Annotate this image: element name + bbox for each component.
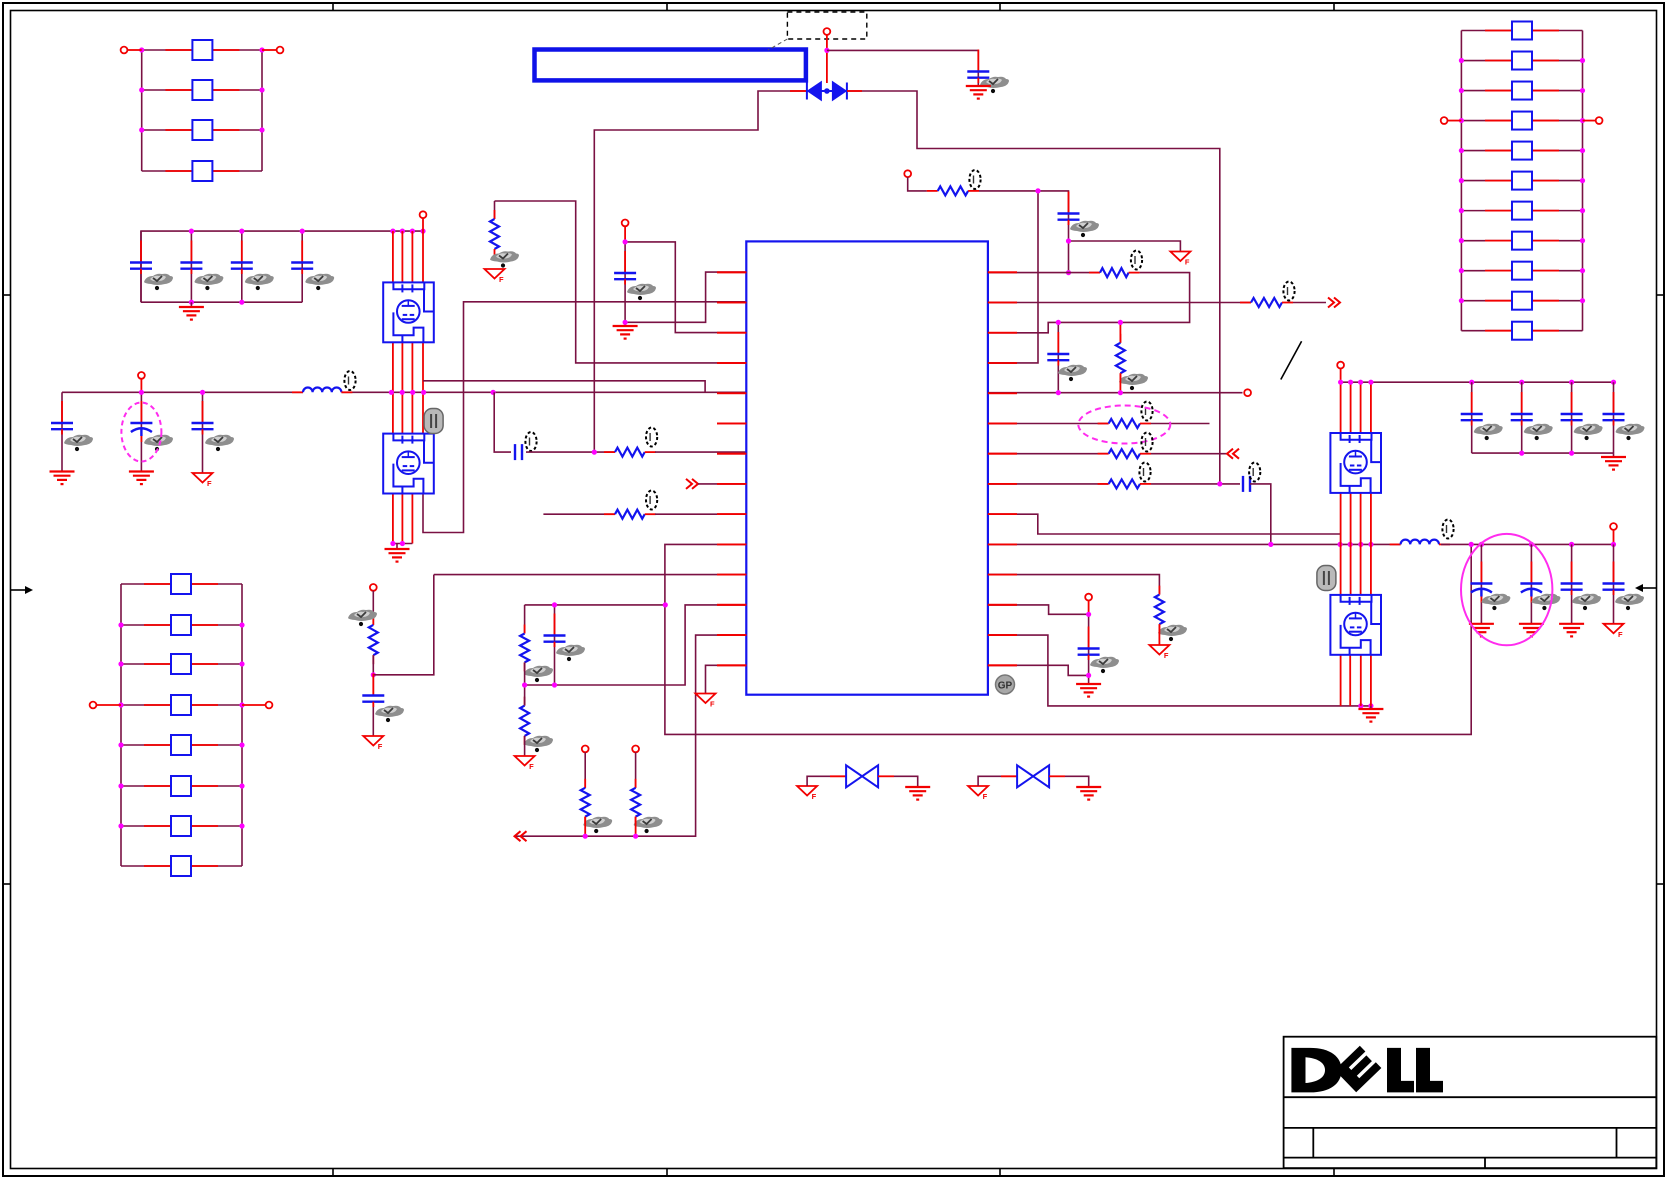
wire RN2 row 3 — [121, 663, 242, 665]
wire cap bank2 bottom rail — [1472, 452, 1614, 454]
ground under C53 — [1559, 624, 1584, 637]
ground cap bank2 — [1601, 457, 1626, 470]
ground under C33 — [1076, 684, 1101, 697]
series capacitor C26 — [515, 444, 522, 460]
off-page arrow into pin 483 — [686, 479, 698, 489]
value icon C27 — [375, 706, 404, 722]
terminal above R24 — [370, 584, 377, 591]
wire terminal VIN stub — [422, 218, 424, 231]
wire pin665R run — [988, 665, 1089, 675]
resistor bank RN3 left rail — [1460, 31, 1462, 331]
chassis ground right of C30 — [1170, 252, 1190, 267]
wire bowtie 1 left — [807, 776, 830, 786]
capacitor C25 — [614, 251, 636, 285]
svg-text:GP: GP — [998, 681, 1013, 692]
capacitor C31 — [1047, 332, 1069, 366]
wire bundle 412.4 mid — [411, 342, 413, 433]
wire row483 mid — [1151, 483, 1240, 485]
resistor R47 — [144, 816, 218, 836]
junction dot row483 — [1217, 481, 1222, 486]
wire bowtie 1 right — [894, 776, 918, 787]
IC U1 right pin stub overlay — [988, 272, 1017, 665]
value label R36 — [1139, 463, 1150, 482]
terminal row392 — [1244, 389, 1251, 396]
terminal above right bundle — [1337, 362, 1344, 369]
chassis ground bowtie 2 left — [968, 786, 988, 801]
value label R33 — [1283, 282, 1294, 301]
resistor R48 — [144, 856, 218, 876]
junction dots R30 net — [1035, 188, 1071, 275]
capacitor C27 — [362, 674, 384, 708]
wire RN3 row 11 — [1461, 330, 1582, 332]
value icon C41 — [1474, 424, 1503, 440]
wire bundle 423 mid — [422, 342, 424, 433]
wire cap C22 branch — [140, 392, 142, 471]
wire RN3 row 7 — [1461, 210, 1582, 212]
resistor R27 — [581, 779, 590, 826]
off-page arrow out row302 — [1328, 298, 1340, 308]
ground under C51 — [1469, 624, 1494, 637]
ground cap bank — [179, 307, 204, 320]
wire bundleR 1340.6 upper — [1340, 382, 1342, 433]
value icon C33 — [1090, 657, 1119, 673]
value icon R27 — [583, 817, 612, 833]
frame centering arrow left — [11, 586, 33, 594]
capacitor C53 — [1561, 562, 1583, 596]
annotation dashed box — [787, 12, 866, 39]
wire rail382 — [1341, 381, 1614, 383]
resistor R23 — [604, 510, 656, 519]
wire bundle VIN 392.9 upper — [392, 231, 394, 282]
wire terminal stub rail544 — [1613, 530, 1615, 545]
polarized capacitor C22 — [130, 401, 152, 442]
ground below MOSFET Q4 — [1358, 709, 1383, 722]
ground under C24 — [966, 86, 991, 99]
resistor bank RN3 right rail — [1582, 31, 1584, 331]
wire bowtie 1 left red — [830, 775, 846, 777]
wire bundle VIN 423 upper — [422, 231, 424, 282]
wire RC top rail — [525, 604, 666, 606]
resistor R44 — [144, 695, 218, 715]
wire R33 to arrow — [1293, 302, 1326, 304]
value icon for C14 — [305, 274, 334, 290]
value icon R24 — [348, 610, 377, 626]
capacitor C30 — [1058, 192, 1080, 226]
wire cap C14 branch — [301, 231, 303, 302]
svg-text:F: F — [812, 792, 817, 801]
resistor bank RN1 left rail wire — [141, 50, 143, 171]
resistor R34 — [1098, 419, 1151, 428]
wire R32 bottom — [1119, 373, 1121, 392]
wire pin574 run — [988, 575, 1160, 595]
junction dot R24 C27 — [371, 672, 376, 677]
wire gnd stem cap bank2 — [1613, 453, 1615, 457]
value label C32 — [1249, 463, 1260, 482]
value icon C25 — [627, 284, 656, 300]
wire cap bank top rail — [141, 231, 423, 302]
resistor R14 — [165, 161, 239, 181]
junction dots M2 source bus — [390, 541, 405, 546]
resistor R28 — [631, 779, 640, 826]
svg-text:F: F — [1618, 630, 1623, 639]
terminal above R28 — [632, 746, 639, 753]
wire C32 to rail — [1250, 484, 1271, 545]
label icon near Q2 — [424, 409, 443, 434]
wire row453 right — [1151, 453, 1227, 455]
wire cap C11 branch — [140, 231, 142, 302]
wire bowtie 2 left — [978, 776, 1001, 786]
wire terminal to TVS — [826, 35, 828, 83]
IC U1 left pin stub overlay — [717, 272, 746, 665]
value icon C44 — [1616, 424, 1645, 440]
off-page arrow left bottom — [515, 831, 527, 841]
wire bundleR 1360.6 upper — [1360, 382, 1362, 433]
IC U1 right pin stubs — [988, 272, 1017, 665]
resistor R51 — [1485, 22, 1559, 40]
wire RN2 row 2 — [121, 624, 242, 626]
wire row514 left — [543, 513, 615, 515]
net label box (blue) — [535, 50, 806, 81]
wire C28 branch — [554, 605, 556, 685]
value icon R25 — [524, 666, 553, 682]
wire TVS cap branch — [827, 50, 978, 86]
wire RN3 row 6 — [1461, 180, 1582, 182]
main controller IC U1 — [746, 241, 988, 694]
chassis ground under R37 — [1149, 645, 1169, 660]
value label R35 — [1141, 433, 1152, 452]
junction dots C31 R32 — [1056, 320, 1123, 396]
wire pin635 run — [515, 635, 747, 836]
capacitor C23 — [192, 401, 214, 435]
resistor R32 — [1116, 334, 1125, 383]
capacitor C44 — [1603, 392, 1625, 426]
wire R30 lead — [908, 177, 927, 191]
capacitor C33 — [1078, 627, 1100, 661]
wire RN2 row 1 — [121, 583, 242, 585]
highlight ellipse around C22 — [121, 403, 161, 462]
wire RN3 row 5 — [1461, 150, 1582, 152]
terminal above C25 — [622, 220, 629, 227]
wire RC bottom rail — [525, 605, 747, 685]
wire cap bank bottom rail — [141, 301, 302, 303]
wire RC top rail corner — [524, 605, 526, 634]
label icon near Q4 — [1317, 566, 1336, 591]
wire R28 top lead — [635, 752, 637, 788]
diode pair D3 — [1017, 765, 1049, 787]
junction dots left rail — [139, 390, 496, 395]
resistor R57 — [1485, 202, 1559, 220]
resistor R33 — [1240, 298, 1293, 307]
wire RN2 row 5 — [121, 744, 242, 746]
value icon R28 — [634, 817, 663, 833]
wire bundle 392.9 mid — [392, 342, 394, 433]
wire RN3 row 1 — [1461, 30, 1582, 32]
value icon C42 — [1524, 424, 1553, 440]
wire row453 — [988, 453, 1109, 455]
svg-text:F: F — [499, 275, 504, 284]
diode pair D2 — [846, 765, 878, 787]
polarized capacitor C51 — [1470, 562, 1492, 603]
IC U1 left pin stubs — [717, 272, 746, 665]
wire row302 — [988, 302, 1251, 304]
wire cap C12 branch — [190, 231, 192, 302]
wire R28 bottom lead — [635, 817, 637, 837]
resistor R58 — [1485, 232, 1559, 250]
value label C26 — [525, 432, 536, 451]
wire left rail VOUT1 b — [341, 391, 746, 393]
power MOSFET Q2 — [383, 434, 434, 494]
wire terminal to RN1 left — [128, 49, 142, 51]
resistor R21 — [490, 210, 499, 258]
wire C43 branch — [1571, 382, 1573, 453]
capacitor C21 — [51, 401, 73, 435]
wire RN1 row 2 — [142, 89, 262, 91]
svg-text:F: F — [529, 762, 534, 771]
wire R21 branch — [494, 201, 496, 219]
resistor R45 — [144, 735, 218, 755]
wire R24 to C27 — [372, 655, 374, 695]
resistor R43 — [144, 654, 218, 674]
wire R32 top — [1119, 322, 1121, 342]
junction dot series row — [592, 450, 597, 455]
wire C26 to R22 — [526, 451, 615, 453]
wire R37 to fgnd — [1158, 624, 1160, 645]
resistor R55 — [1485, 142, 1559, 160]
wire row423 — [988, 423, 1109, 425]
resistor R54 — [1485, 112, 1559, 130]
wire bundleR 1340.6 mid — [1340, 493, 1342, 544]
wire RN3 row 9 — [1461, 270, 1582, 272]
svg-text:F: F — [378, 742, 383, 751]
wire pin665 run — [706, 665, 747, 693]
wire R27 top lead — [584, 752, 586, 788]
chassis ground under C54 — [1604, 624, 1624, 639]
wire C41 branch — [1471, 382, 1473, 453]
wire C30 to fgnd — [1069, 241, 1181, 252]
capacitor C13 — [231, 241, 253, 275]
terminal rail544 — [1610, 523, 1617, 530]
wire rail544 right — [1441, 543, 1614, 545]
Dell logo — [1291, 1046, 1443, 1093]
wire row574 — [434, 574, 747, 576]
wire RN3 row 4 — [1461, 120, 1582, 122]
resistor R31 — [1089, 268, 1140, 277]
wire M2 source bus — [393, 543, 413, 545]
wire RN2 row 7 — [121, 825, 242, 827]
value label R30 — [969, 170, 980, 189]
wire bundleR 1370.9 mid — [1370, 493, 1372, 544]
terminal right of RN1 — [277, 47, 284, 54]
wire left rail VOUT1 — [62, 391, 303, 393]
value icon R21 — [490, 251, 519, 267]
wire pin604 run — [988, 605, 1089, 614]
wire terminal stub right bundle — [1340, 369, 1342, 383]
wire bowtie 2 left red — [1001, 775, 1017, 777]
wire C52 branch — [1530, 544, 1532, 623]
wire bundle 402.4 mid — [401, 342, 403, 433]
junction dots M4 gnd bus — [1358, 703, 1373, 708]
chassis ground pin665 — [696, 694, 716, 709]
capacitor C12 — [180, 241, 202, 275]
chassis ground under C27 — [363, 736, 383, 751]
annotation leader line — [768, 39, 787, 50]
wire pin635R run — [988, 635, 1371, 706]
wire cap C13 branch — [241, 231, 243, 302]
value label L1 — [344, 371, 355, 390]
value icon C53 — [1572, 594, 1601, 610]
value icon R37 — [1158, 625, 1187, 641]
wire TVS left red — [790, 90, 806, 92]
wire C33 branch — [1088, 614, 1090, 684]
resistor R46 — [144, 776, 218, 796]
wire TVS right lead — [847, 91, 1220, 484]
resistor R52 — [1485, 52, 1559, 70]
wire bundle VIN 402.4 upper — [401, 231, 403, 282]
value icon C23 — [205, 435, 234, 451]
resistor R22 — [604, 448, 656, 457]
wire row423 right — [1151, 423, 1210, 425]
wire row483 — [988, 483, 1109, 485]
wire terminal to C25 — [624, 226, 626, 242]
junction dots RN2 — [118, 622, 244, 828]
power MOSFET Q1 — [383, 282, 434, 342]
ground under C21 — [50, 472, 75, 485]
capacitor C14 — [291, 241, 313, 275]
frame centering arrow right — [1635, 584, 1656, 592]
resistor R59 — [1485, 262, 1559, 280]
wire gnd stem M2 bus — [396, 544, 398, 550]
value icon C52 — [1531, 594, 1560, 610]
resistor bank RN2 right rail — [241, 584, 243, 866]
wire terminal RN2 left — [97, 704, 122, 706]
wire R30 to C30 — [979, 191, 1069, 273]
capacitor C41 — [1461, 392, 1483, 426]
wire R27 bottom lead — [584, 817, 586, 837]
wire terminal stub left rail — [140, 379, 142, 393]
wire TVS right red — [847, 90, 862, 92]
wire bowtie 1 right red — [878, 775, 894, 777]
resistor R24 — [369, 616, 378, 664]
wire bundle 402.4 lower — [401, 494, 403, 544]
terminal VIN top — [420, 211, 427, 218]
wire RN1 row 4 — [142, 170, 262, 172]
value icon C31 — [1058, 365, 1087, 381]
wire terminal RN3 right — [1583, 120, 1596, 122]
chassis ground bowtie 1 left — [797, 786, 817, 801]
wire bowtie 2 right — [1065, 776, 1089, 787]
terminal left of RN3 — [1441, 117, 1448, 124]
value label L2 — [1442, 520, 1453, 539]
value icon C24 — [980, 77, 1009, 93]
terminal left of RN1 — [121, 47, 128, 54]
chassis ground under C23 — [193, 473, 213, 488]
resistor R42 — [144, 615, 218, 635]
wire C25 to pin — [625, 242, 746, 333]
wire RN3 row 3 — [1461, 90, 1582, 92]
wire terminal stub C33 — [1088, 601, 1090, 615]
terminal above TVS — [824, 28, 831, 35]
ground below MOSFET Q2 — [385, 549, 410, 562]
power MOSFET Q3 — [1330, 433, 1381, 493]
wire gnd stem cap bank — [190, 302, 192, 307]
svg-text:F: F — [207, 479, 212, 488]
off-page arrow row453 — [1227, 449, 1239, 459]
junction dots cap bank2 — [1519, 451, 1574, 456]
wire C44 branch — [1613, 382, 1615, 453]
wire bowtie 2 right red — [1049, 775, 1065, 777]
value icon R32 — [1119, 374, 1148, 390]
wire rail544 left — [988, 543, 1401, 545]
junction dot TVS top — [824, 48, 829, 53]
resistor R35 — [1098, 449, 1151, 458]
wire C51 branch — [1480, 544, 1482, 623]
terminal above R30 — [904, 170, 911, 177]
wire bundleR 1370.9 lower — [1370, 544, 1372, 595]
terminal right of RN3 — [1596, 117, 1603, 124]
wire R31 loop — [988, 273, 1190, 333]
wire M2 drain lead — [423, 302, 746, 533]
wire bundleR 1360.6 mid — [1360, 493, 1362, 544]
wire bundle 412.4 lower — [411, 494, 413, 544]
wire RN1 row 3 — [142, 129, 262, 131]
wire RN1 row 1 — [142, 49, 262, 51]
capacitor C54 — [1603, 562, 1625, 596]
ground under C25 — [613, 326, 638, 339]
wire R26 stub — [524, 662, 526, 705]
terminal above R27 — [582, 746, 589, 753]
value icon C43 — [1574, 424, 1603, 440]
terminal right of RN2 — [266, 702, 273, 709]
GP marker icon — [996, 675, 1015, 694]
ground under C22 — [129, 472, 154, 485]
ground bowtie 2 — [1076, 787, 1101, 800]
wire cap C23 branch — [202, 392, 204, 473]
wire C42 branch — [1521, 382, 1523, 453]
junction dots C25 node — [623, 239, 628, 325]
value icon for C11 — [144, 274, 173, 290]
wire R22 to pin — [655, 451, 746, 453]
junction dots RN3 — [1459, 58, 1585, 303]
wire R24 top lead — [372, 591, 374, 625]
wire bundle VIN 412.4 upper — [411, 231, 413, 282]
wire bundleR 1340.6 below — [1340, 655, 1342, 706]
capacitor C28 — [544, 614, 566, 648]
resistor R53 — [1485, 82, 1559, 100]
wire C54 branch — [1613, 544, 1615, 623]
wire pin514 run — [988, 514, 1340, 534]
polarized capacitor C52 — [1520, 562, 1542, 603]
resistor R56 — [1485, 172, 1559, 190]
junction dots RC network — [522, 602, 668, 687]
resistor bank RN2 left rail — [120, 584, 122, 866]
value icon C51 — [1481, 594, 1510, 610]
chassis ground under R21 — [485, 269, 505, 284]
highlight ellipse around C51 C52 — [1461, 534, 1552, 645]
wire bundleR 1340.6 lower — [1340, 544, 1342, 595]
terminal left rail — [138, 372, 145, 379]
value icon R26 — [524, 736, 553, 752]
power MOSFET Q4 — [1330, 595, 1381, 655]
resistor R26 — [520, 697, 529, 745]
wire C27 to fgnd — [372, 704, 374, 736]
annotation slash — [1281, 341, 1302, 379]
resistor R37 — [1155, 586, 1164, 634]
value label R34 — [1141, 402, 1152, 421]
resistor R25 — [520, 625, 529, 672]
series capacitor C32 — [1243, 476, 1250, 492]
value label R22 — [646, 428, 657, 447]
wire R30 node down to pin — [988, 191, 1038, 363]
